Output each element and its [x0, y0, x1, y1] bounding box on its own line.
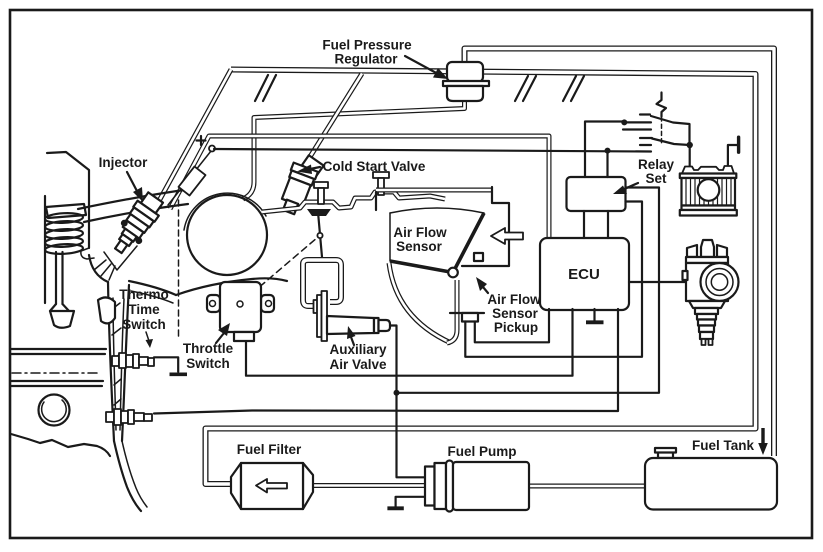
engine bracket strut	[89, 255, 108, 282]
wire: second vertical to relay	[606, 150, 608, 177]
injector/+ supply wire to relay contacts	[214, 149, 651, 152]
aux valve air hose U-loop	[303, 260, 341, 306]
intake valve stem and head	[56, 252, 63, 304]
ECU box	[540, 238, 629, 310]
arrow to pickup	[483, 287, 488, 293]
injector wire pair from rail band to ECU	[170, 136, 549, 238]
distributor	[683, 240, 739, 345]
svg-text:Pickup: Pickup	[494, 320, 538, 335]
svg-text:Auxiliary: Auxiliary	[329, 342, 387, 357]
auxiliary air valve	[314, 291, 391, 341]
dashed cylinder centre line	[178, 200, 180, 338]
bracket top curve to throttle area	[129, 281, 176, 295]
valve spring coils	[45, 212, 83, 255]
intake arrow into sensor	[491, 228, 523, 244]
svg-text:Regulator: Regulator	[334, 52, 398, 67]
manifold screw fitting 2	[373, 172, 389, 195]
fuel pressure regulator	[443, 62, 489, 101]
engine rocker cover outline	[47, 152, 89, 248]
svg-text:Switch: Switch	[186, 356, 230, 371]
wire: ECU to distributor	[629, 281, 686, 283]
wires: relay to ECU	[584, 211, 608, 238]
svg-text:Throttle: Throttle	[183, 341, 234, 356]
intake manifold top	[262, 192, 445, 212]
engine block lines	[11, 349, 106, 354]
svg-text:Injector: Injector	[99, 155, 149, 170]
svg-text:Air Flow: Air Flow	[393, 225, 447, 240]
body panel diagonal band edge	[159, 70, 231, 202]
fuel filter	[231, 463, 313, 509]
return arrow into tank	[761, 428, 764, 444]
svg-text:Thermo: Thermo	[119, 287, 169, 302]
hose from manifold to aux valve loop	[318, 212, 322, 257]
svg-text:Fuel Tank: Fuel Tank	[692, 438, 755, 453]
injector feed wire with + terminal	[168, 151, 211, 205]
junction dots	[621, 119, 627, 125]
ignition zigzag	[657, 93, 667, 117]
svg-text:Time: Time	[128, 302, 160, 317]
injector	[107, 189, 168, 259]
svg-text:Air Valve: Air Valve	[329, 357, 387, 372]
svg-text:Air Flow: Air Flow	[487, 292, 541, 307]
svg-text:ECU: ECU	[568, 266, 600, 283]
svg-text:Sensor: Sensor	[492, 306, 539, 321]
dashed throttle linkage	[243, 237, 318, 301]
wire: aux valve to pump, with junction	[390, 326, 426, 478]
air flow sensor vane	[390, 213, 484, 273]
svg-text:Relay: Relay	[638, 157, 675, 172]
triangle window in bracket	[98, 297, 115, 323]
wire: ECU bottom to engine fitting	[154, 309, 618, 414]
manifold screw fitting 1	[314, 182, 328, 204]
svg-text:Switch: Switch	[122, 317, 166, 332]
wire: relay stub right upper, down to pump area wire	[397, 188, 660, 393]
sensor damping chamber quarter arc	[389, 263, 451, 343]
fuel return pipe: regulator top, across top, down to tank	[465, 49, 775, 457]
relay contact bars	[640, 113, 650, 115]
injector spray dashes	[94, 260, 115, 280]
arrow to throttle switch	[216, 333, 224, 343]
wire: ECU bottom to throttle switch	[246, 309, 573, 376]
ECU ground	[593, 309, 595, 321]
plenum / throttle body circle	[187, 195, 267, 275]
valve spring cap	[46, 204, 86, 218]
manifold dark port under CSV	[307, 209, 331, 216]
bracket foot curve	[114, 441, 141, 511]
fuel rail pipe: regulator bottom, diagonal to plenum	[243, 100, 465, 199]
sensor pickup connector	[462, 313, 478, 322]
break marks on panel line (mid)	[515, 76, 536, 101]
battery	[680, 137, 739, 215]
head surface diagonals	[78, 189, 191, 209]
small arrow thermo	[146, 332, 149, 341]
lower fitting bolt cluster	[106, 409, 152, 425]
relay switch arms	[651, 116, 690, 145]
svg-text:Sensor: Sensor	[396, 239, 443, 254]
break marks on panel line (right)	[563, 76, 584, 101]
cold start valve	[276, 151, 325, 218]
pipe: tank to pump	[529, 484, 645, 489]
chamber lower-left housing line	[450, 312, 484, 314]
air flow sensor housing	[376, 187, 509, 266]
dashed mechanical link	[661, 117, 663, 143]
relay set box	[567, 177, 626, 211]
arrow to cold start valve	[310, 167, 320, 169]
head line under plenum	[176, 278, 287, 295]
arrow to regulator	[405, 56, 440, 75]
throttle switch	[207, 282, 274, 341]
pipe: pump to filter	[313, 483, 425, 488]
fuel tank	[645, 448, 777, 510]
wire: vertical to relay (left) with horizontal to contact	[585, 122, 624, 178]
injector mounting boss	[104, 246, 137, 270]
arrow to injector	[127, 172, 138, 193]
thermo switch ground wire	[154, 357, 178, 372]
wire: pickup second lead to ECU bottom	[475, 309, 549, 342]
pump ground	[396, 497, 426, 507]
arrow to aux valve	[351, 337, 354, 345]
arrow to relay box	[622, 183, 638, 190]
svg-text:Set: Set	[645, 171, 667, 186]
wire: relay stub right lower, down-left to pickup	[465, 202, 642, 357]
cold start valve hose	[308, 74, 362, 161]
head left wall	[44, 196, 46, 303]
cover foot step	[81, 248, 94, 259]
block jagged bottom edge	[11, 434, 110, 456]
svg-text:Fuel Pressure: Fuel Pressure	[322, 38, 412, 53]
svg-text:Fuel Filter: Fuel Filter	[237, 442, 302, 457]
svg-text:Fuel Pump: Fuel Pump	[447, 444, 516, 459]
thermo fitting bolt cluster	[112, 353, 154, 368]
fuel pump	[425, 461, 529, 512]
fuel supply pipe: filter to rail, around right side and top	[206, 70, 756, 485]
cylinder bore arcs	[39, 395, 70, 426]
break marks on panel line (left)	[255, 75, 276, 101]
